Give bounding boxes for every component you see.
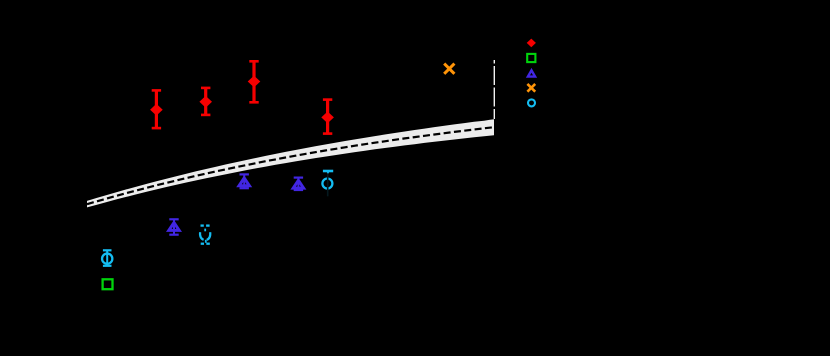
legend marker: red diamond bbox=[527, 39, 536, 48]
legend marker: cyan open circle bbox=[528, 99, 535, 106]
cyan point 2 dashed circle (lower arcs) bbox=[200, 232, 210, 240]
red point 3 diamond bbox=[248, 76, 261, 88]
blue point 1 triangle bbox=[169, 223, 179, 231]
cyan point 1 error bar bbox=[103, 250, 112, 265]
blue point 2 error bar bbox=[240, 174, 249, 188]
red point 2 diamond bbox=[199, 96, 212, 108]
cyan point 3 circle bbox=[322, 179, 332, 189]
cyan point 3 error bar (dark line over marker, bright cap) bbox=[327, 173, 329, 196]
cyan data set: open circles with error bars bbox=[102, 170, 333, 266]
red data set: diamonds with error bars bbox=[150, 61, 334, 133]
red point 2 error bar bbox=[201, 88, 210, 115]
orange data point: X marker bbox=[444, 64, 454, 74]
red point 1 error bar bbox=[152, 90, 161, 128]
theory central dashed line bbox=[87, 127, 494, 204]
theory uncertainty band bbox=[87, 119, 494, 207]
red point 3 error bar bbox=[249, 61, 258, 102]
blue point 2 triangle bbox=[239, 178, 249, 186]
blue point 1 error bar bbox=[169, 219, 178, 234]
green data point: open square bbox=[103, 279, 113, 289]
cyan point 2 (dashed limit) error bar bbox=[201, 226, 210, 244]
blue point 3 error bar bbox=[294, 178, 303, 190]
endpoint vertical dashed white line bbox=[493, 60, 495, 119]
red point 1 diamond bbox=[150, 104, 163, 116]
legend marker: blue open triangle bbox=[528, 70, 535, 76]
red point 4 diamond bbox=[321, 112, 334, 124]
legend marker: orange X bbox=[527, 84, 535, 92]
red point 4 error bar bbox=[323, 100, 332, 134]
blue point 3 triangle bbox=[293, 180, 303, 188]
blue data set: open triangles with error bars bbox=[169, 174, 304, 234]
cyan point 1 circle bbox=[102, 254, 112, 264]
legend marker: green open square bbox=[527, 54, 535, 62]
